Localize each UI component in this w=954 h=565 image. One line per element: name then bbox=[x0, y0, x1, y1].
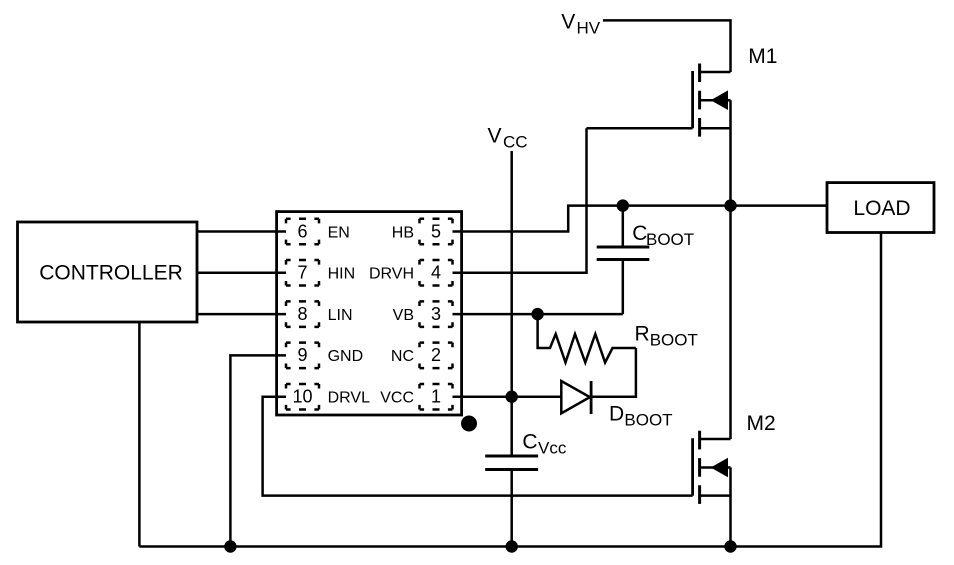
svg-text:HV: HV bbox=[577, 19, 601, 38]
svg-text:9: 9 bbox=[297, 345, 307, 365]
svg-text:7: 7 bbox=[297, 263, 307, 283]
svg-text:HIN: HIN bbox=[328, 266, 356, 283]
svg-text:DRVH: DRVH bbox=[369, 266, 414, 283]
svg-text:VCC: VCC bbox=[380, 390, 414, 407]
svg-text:M1: M1 bbox=[748, 45, 777, 68]
svg-text:5: 5 bbox=[431, 221, 441, 241]
svg-text:Vcc: Vcc bbox=[538, 439, 567, 458]
svg-text:C: C bbox=[522, 431, 537, 454]
svg-text:8: 8 bbox=[297, 304, 307, 324]
svg-text:10: 10 bbox=[292, 387, 312, 407]
svg-text:NC: NC bbox=[391, 348, 414, 365]
svg-text:LIN: LIN bbox=[328, 307, 353, 324]
svg-text:4: 4 bbox=[431, 263, 441, 283]
svg-text:HB: HB bbox=[392, 224, 414, 241]
svg-text:V: V bbox=[488, 125, 502, 148]
svg-text:EN: EN bbox=[328, 224, 350, 241]
svg-text:LOAD: LOAD bbox=[853, 197, 910, 220]
svg-text:CC: CC bbox=[503, 133, 528, 152]
svg-text:DRVL: DRVL bbox=[328, 390, 370, 407]
svg-text:BOOT: BOOT bbox=[624, 411, 672, 430]
svg-text:1: 1 bbox=[431, 387, 441, 407]
svg-text:BOOT: BOOT bbox=[650, 331, 698, 350]
svg-text:3: 3 bbox=[431, 304, 441, 324]
svg-text:VB: VB bbox=[393, 307, 414, 324]
svg-text:M2: M2 bbox=[747, 412, 776, 435]
svg-text:CONTROLLER: CONTROLLER bbox=[39, 262, 183, 285]
svg-text:BOOT: BOOT bbox=[646, 230, 694, 249]
svg-text:D: D bbox=[609, 403, 624, 426]
svg-text:R: R bbox=[635, 323, 650, 346]
svg-text:2: 2 bbox=[431, 345, 441, 365]
svg-text:6: 6 bbox=[297, 221, 307, 241]
svg-text:GND: GND bbox=[328, 348, 364, 365]
svg-text:V: V bbox=[561, 11, 575, 34]
